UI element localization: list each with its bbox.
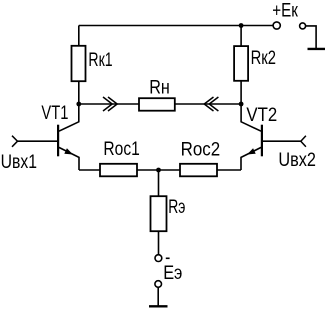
svg-text:VT1: VT1 [41,102,68,124]
svg-text:Roc2: Roc2 [181,139,221,161]
wire circle to ground [306,26,317,49]
ground (bottom) [149,305,168,307]
svg-text:Rк2: Rк2 [251,47,276,69]
svg-text:Uвх1: Uвх1 [1,151,37,173]
arrow right chevron 2 [108,97,117,111]
wire node A to Rн [79,103,139,105]
VT1 emitter wire [59,147,79,170]
wire Rэ to Eэ terminal [158,231,160,255]
wire Roc2 to VT2 emitter [217,169,241,171]
wire Roc1 to Roc2 [137,169,180,171]
wire Rк2 to node B [240,81,242,104]
VT2 collector wire [241,104,261,131]
wire top rail [79,25,273,27]
svg-text:VT2: VT2 [246,104,277,126]
label minus [166,257,170,259]
VT1 emitter arrow [64,148,73,154]
svg-text:Uвх2: Uвх2 [278,149,316,171]
svg-text:Rк1: Rк1 [88,49,112,71]
transistor VT1 [58,104,79,170]
wire VT2 base input [263,140,301,142]
terminal +Eк circle [273,22,280,29]
wire Rk1 to node A [78,81,80,104]
VT2 base bar [261,125,263,157]
wire Rн to node B [175,103,241,105]
svg-text:+Eк: +Eк [272,0,298,21]
wire rail to Rk1 [78,26,80,46]
wire VT1 base input [18,140,58,142]
terminal ground-side circle [300,23,306,29]
terminal bottom ground circle [155,281,162,288]
node B (VT2 collector junction) [239,102,244,107]
arrow left chevron 2 [209,97,218,111]
arrow right chevron 1 [103,97,112,111]
VT1 collector wire [59,104,79,131]
wire node C to Rк2 [240,26,242,47]
svg-text:Roc1: Roc1 [103,138,139,160]
resistor Rн [139,98,175,111]
transistor VT2 [241,104,262,170]
node D (emitter junction) [156,168,161,173]
input terminal arrow left [12,136,18,147]
input terminal arrow right [301,136,306,147]
svg-text:Rэ: Rэ [168,196,185,218]
resistor Roc1 [100,164,137,177]
svg-text:Eэ: Eэ [163,262,182,284]
arrow left chevron 1 [204,97,213,111]
wire node D to Rэ [158,170,160,196]
terminal Eэ circle [155,255,162,262]
ground (top right) [308,48,325,50]
wire VT1 emitter to Roc1 [79,169,100,171]
node A (VT1 collector junction) [76,102,81,107]
node C (top rail above Rk2) [239,23,244,28]
VT1 base bar [57,125,59,157]
svg-text:Rн: Rн [149,77,170,99]
resistor Roc2 [180,164,217,177]
resistor Rэ [151,196,167,231]
resistor Rк1 [72,46,86,81]
VT2 emitter arrow [247,148,256,154]
wire circle to ground (bottom) [157,287,159,306]
resistor Rк2 [234,46,248,81]
VT2 emitter wire [241,147,261,170]
